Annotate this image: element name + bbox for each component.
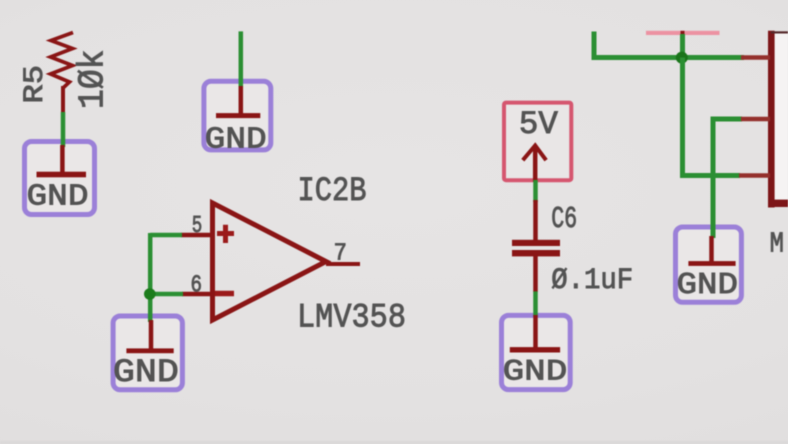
wire down to GND3 (148, 294, 153, 322)
ground GND4 symbol stub (533, 315, 538, 350)
capacitor C6 bottom plate (512, 250, 560, 256)
ground GND3 symbol stub (149, 320, 154, 350)
ground GND1 symbol bar (37, 172, 87, 178)
svg-text:GND: GND (677, 268, 739, 303)
junction node (676, 52, 688, 64)
IC module U3 bottom border (768, 200, 788, 207)
wire from cut 5V rail down to junction (680, 34, 685, 58)
ground GND4 highlight box (below C6) (502, 315, 571, 389)
wire vertical joining pin5 and pin6 nets (148, 233, 153, 294)
power 5V supply box (504, 103, 571, 181)
power 5V arrow stem (533, 147, 538, 182)
IC module pin stub at y175 (739, 173, 770, 178)
resistor R5 bottom lead (61, 86, 65, 114)
ground GND4 symbol bar (510, 347, 560, 352)
svg-text:7: 7 (334, 241, 347, 268)
power rail highlight box bottom edge (cut at top) (646, 31, 720, 35)
IC module U3 top edge line (771, 31, 788, 33)
junction node at pin6 net (144, 288, 156, 300)
op-amp IC2B triangle (213, 203, 327, 320)
wire net to pin 5 (150, 233, 182, 238)
capacitor C6 bottom lead (533, 255, 538, 292)
svg-text:IC2B: IC2B (298, 173, 367, 211)
ground GND5 symbol stub (709, 236, 714, 263)
ground GND3 symbol bar (126, 348, 173, 353)
wire vertical down to GND5 (711, 117, 716, 239)
wire elbow left of junction (594, 32, 744, 58)
IC module U3 left border (768, 31, 775, 208)
capacitor C6 top plate (512, 240, 560, 246)
ground GND2 symbol bar (216, 113, 260, 118)
wire 5V to C6 (net) (533, 180, 538, 202)
ground GND2 highlight box (top middle) (204, 81, 271, 150)
power arrow stem remnant (cut) (681, 31, 685, 37)
svg-text:1Øk: 1Øk (73, 50, 114, 110)
svg-text:6: 6 (191, 273, 203, 300)
ground GND5 highlight box (right) (676, 227, 742, 302)
svg-text:GND: GND (503, 356, 568, 390)
ground GND2 symbol stub (239, 86, 244, 114)
wire to GND2 (net) (239, 31, 244, 87)
svg-text:GND: GND (113, 354, 179, 391)
IC module pin stub at y119 (741, 117, 770, 122)
wire C6 to GND4 (net) (533, 291, 538, 316)
capacitor C6 top lead (533, 200, 538, 241)
wire R5 to GND1 (net) (61, 112, 66, 147)
resistor R5 zigzag body (51, 33, 74, 89)
wire net to pin 6 (150, 292, 183, 297)
op-amp IC2B minus symbol (215, 291, 234, 297)
svg-text:5V: 5V (519, 106, 559, 143)
op-amp pin 6 stub (182, 292, 210, 297)
bottom edge shading (0, 441, 788, 444)
svg-text:C6: C6 (551, 202, 577, 237)
svg-text:M: M (770, 228, 784, 261)
op-amp pin 7 output stub (326, 262, 360, 266)
op-amp pin 5 stub (181, 233, 210, 238)
ground GND5 symbol bar (688, 261, 735, 266)
IC module U3 (cut off at right edge) body fill (771, 32, 788, 204)
svg-text:GND: GND (27, 179, 89, 214)
svg-text:LMV358: LMV358 (297, 299, 406, 337)
IC module pin stub at y57 (741, 55, 770, 60)
ground GND1 highlight box (below R5) (25, 142, 95, 215)
svg-text:GND: GND (205, 123, 267, 158)
op-amp IC2B plus symbol (217, 225, 234, 243)
ground GND1 symbol stub (60, 145, 65, 173)
svg-text:Ø.1uF: Ø.1uF (551, 264, 633, 298)
svg-text:R5: R5 (20, 65, 51, 104)
wire junction down to bend (680, 58, 685, 179)
svg-text:5: 5 (192, 213, 203, 240)
power 5V arrow head (523, 146, 546, 161)
wire horizontal at y119 (711, 117, 742, 122)
ground GND3 highlight box (below op-amp) (113, 316, 182, 390)
wire bend to IC module at y175 (680, 173, 740, 178)
